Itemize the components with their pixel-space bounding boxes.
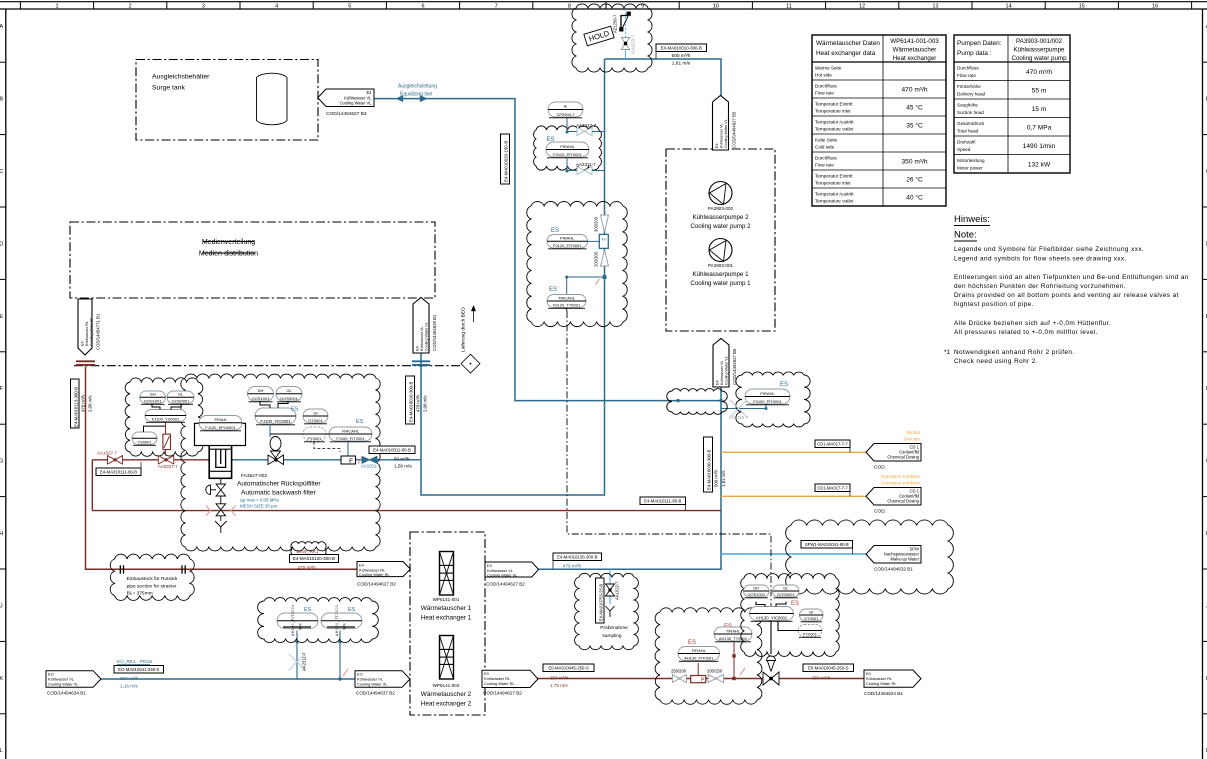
svg-text:C: C xyxy=(0,169,3,175)
svg-text:AA1027-7: AA1027-7 xyxy=(97,451,118,456)
battery limit line at media distribution xyxy=(74,365,461,367)
svg-text:Motorleistung: Motorleistung xyxy=(957,158,985,163)
svg-text:H: H xyxy=(0,531,3,537)
svg-text:Heat exchanger: Heat exchanger xyxy=(893,55,937,62)
svg-text:COD/14494627 B2: COD/14494627 B2 xyxy=(483,691,522,696)
svg-text:350 m³/h: 350 m³/h xyxy=(812,676,831,681)
revision cloud around backwash filter xyxy=(181,374,380,551)
svg-text:12: 12 xyxy=(859,4,865,10)
svg-text:E4-MA010111-80-B: E4-MA010111-80-B xyxy=(644,498,681,503)
svg-text:1490 1/min: 1490 1/min xyxy=(1023,143,1056,150)
flow element F box FJ100 xyxy=(347,442,349,457)
svg-text:Lieferung durch BEO: Lieferung durch BEO xyxy=(461,307,467,352)
pipe pump discharge header E4-MA010010-300-B xyxy=(605,59,722,96)
svg-text:55 m: 55 m xyxy=(1032,88,1047,95)
connector HX return right E0 RL xyxy=(482,670,538,687)
svg-text:KÜ_RK1 - PN16: KÜ_RK1 - PN16 xyxy=(117,658,152,665)
svg-text:ES: ES xyxy=(791,601,799,607)
svg-text:Heat exchanger data: Heat exchanger data xyxy=(816,50,876,57)
svg-text:ES: ES xyxy=(688,640,696,646)
svg-text:Cooling Water RL: Cooling Water RL xyxy=(866,681,897,686)
heat exchanger WP6141-002 symbol xyxy=(440,636,454,680)
instrument bubble GL GOS0001 filter xyxy=(276,387,302,402)
svg-text:GI: GI xyxy=(809,609,813,614)
svg-text:COD.: COD. xyxy=(874,465,886,471)
valve AA2311-7 xyxy=(566,158,568,171)
svg-text:500 m³/h: 500 m³/h xyxy=(714,469,719,487)
svg-text:AA2315-7: AA2315-7 xyxy=(729,415,749,420)
svg-text:1,81 m/s: 1,81 m/s xyxy=(672,60,691,66)
svg-text:PA3903-001/002: PA3903-001/002 xyxy=(1016,38,1063,45)
instrument bubble FJ100_YS0001 xyxy=(145,410,186,422)
svg-text:Alle Drücke beziehen sich auf: Alle Drücke beziehen sich auf +-0,0m Hüt… xyxy=(954,320,1111,327)
make-up connector SPW xyxy=(866,546,921,564)
svg-text:Cooling water pump: Cooling water pump xyxy=(1011,55,1067,62)
svg-text:E4-MA010010-300-B: E4-MA010010-300-B xyxy=(661,45,702,50)
svg-text:sampling: sampling xyxy=(602,633,622,639)
svg-text:E4-MA010030-300-B: E4-MA010030-300-B xyxy=(707,449,712,490)
svg-text:TIRCAHL: TIRCAHL xyxy=(558,295,576,300)
pipe stub to pressure instrument F0100 xyxy=(721,408,766,410)
svg-text:Corrosion Inhibitor: Corrosion Inhibitor xyxy=(881,481,921,487)
svg-text:Cooling Water VL: Cooling Water VL xyxy=(724,119,728,148)
svg-text:Förderhöhe: Förderhöhe xyxy=(957,84,981,89)
svg-text:4: 4 xyxy=(275,4,278,10)
svg-text:470 m³/h: 470 m³/h xyxy=(81,394,86,412)
instrument stub AH100 PIT xyxy=(296,631,298,680)
svg-text:COD/14494627 B5: COD/14494627 B5 xyxy=(732,111,737,148)
svg-text:Notwendigkeit anhand Rohr 2 pr: Notwendigkeit anhand Rohr 2 prüfen. xyxy=(954,349,1075,356)
svg-text:1,81 m/s: 1,81 m/s xyxy=(721,471,726,487)
svg-text:AA1021-7: AA1021-7 xyxy=(361,464,381,469)
svg-text:200/250: 200/250 xyxy=(707,669,723,674)
svg-text:Cooling Water VL: Cooling Water VL xyxy=(48,682,79,687)
instrument bubble GI GT0001 xyxy=(303,409,328,423)
filter drain valve 1 xyxy=(216,484,226,496)
svg-text:15: 15 xyxy=(1079,4,1085,10)
svg-text:GL: GL xyxy=(178,392,184,397)
sampling valve AA1022-7 xyxy=(606,584,615,596)
svg-text:Warme Seite: Warme Seite xyxy=(815,66,842,71)
pipe return from heat exchangers E0-MA010045-250-S xyxy=(538,678,864,680)
valve AA1021-7 xyxy=(362,456,377,463)
svg-text:GOS1001: GOS1001 xyxy=(144,398,163,403)
svg-text:E0-MA010045-250-S: E0-MA010045-250-S xyxy=(548,665,589,670)
svg-text:F0120_PIT0001: F0120_PIT0001 xyxy=(553,152,582,157)
svg-text:E4: E4 xyxy=(715,143,719,148)
svg-text:AA2311-7: AA2311-7 xyxy=(576,162,596,167)
interface diamond xyxy=(461,354,480,373)
svg-text:40 °C: 40 °C xyxy=(906,194,923,202)
svg-text:132 kW: 132 kW xyxy=(1028,162,1051,169)
heat exchanger WP6141-001 symbol xyxy=(440,552,454,596)
svg-text:GT0001: GT0001 xyxy=(804,616,819,621)
svg-text:Temperature inlet: Temperature inlet xyxy=(815,181,851,186)
svg-text:Suction head: Suction head xyxy=(957,110,984,115)
svg-text:470 m³/h: 470 m³/h xyxy=(298,565,317,570)
svg-text:AH100_TT0001: AH100_TT0001 xyxy=(335,605,339,636)
svg-text:Ausgleichsleitung: Ausgleichsleitung xyxy=(398,84,437,90)
svg-text:CP2900-7: CP2900-7 xyxy=(556,112,575,117)
HOLD marker xyxy=(584,26,614,46)
svg-text:Durchfluss: Durchfluss xyxy=(815,156,837,161)
pipe label E0-MA010045-250-S right xyxy=(803,664,854,672)
svg-text:350 m³/h: 350 m³/h xyxy=(901,159,927,166)
svg-text:Drains provided on all bottom: Drains provided on all bottom points and… xyxy=(954,292,1179,299)
svg-text:Probenahme: Probenahme xyxy=(600,625,628,631)
svg-text:1,56 m/s: 1,56 m/s xyxy=(394,464,412,469)
pipe chemical dosing corrosion inhibitor CD1 xyxy=(721,495,866,497)
svg-text:Hinweis:: Hinweis: xyxy=(954,214,990,225)
instrument bubble GI GT0001 right xyxy=(800,609,824,621)
dosing connector corrosion inhibitor xyxy=(866,488,921,506)
instrument bubble FJ100_YIC0001 xyxy=(255,408,296,424)
svg-text:Automatischer Rückspülfilter: Automatischer Rückspülfilter xyxy=(237,481,321,488)
pump PA3903-002 symbol xyxy=(709,182,732,205)
svg-text:All pressures related to +-0,0: All pressures related to +-0,0m millflor… xyxy=(954,329,1098,336)
instrument bubble FIRCAHL FJ100_FIT0001 xyxy=(329,427,372,441)
svg-text:Temperatur Austritt: Temperatur Austritt xyxy=(815,192,854,197)
svg-text:E: E xyxy=(0,314,3,320)
connector to surge tank COD/14494627 B3 xyxy=(318,89,374,107)
svg-text:14: 14 xyxy=(1006,4,1012,10)
connector media distribution supply COD B1 xyxy=(413,298,429,354)
instrument bubble PIRAHL F0120_FIT0001 xyxy=(547,235,588,249)
svg-text:den höchsten Punkten der Rohrl: den höchsten Punkten der Rohrleitung vor… xyxy=(954,283,1126,290)
svg-text:Kühlwasserpumpe: Kühlwasserpumpe xyxy=(1014,47,1065,54)
valve AA1027-7 xyxy=(108,456,123,465)
revision cloud AH100 instruments xyxy=(258,598,379,643)
svg-text:Cooling Water RL: Cooling Water RL xyxy=(359,572,390,577)
svg-text:5: 5 xyxy=(348,4,351,10)
svg-text:TIRAHL: TIRAHL xyxy=(726,628,741,633)
svg-text:AH130_FIT0001: AH130_FIT0001 xyxy=(684,655,714,660)
revision cloud sampling xyxy=(575,573,639,649)
svg-text:L: L xyxy=(0,748,3,754)
svg-text:Medienverteilung: Medienverteilung xyxy=(202,239,255,246)
svg-text:F0120_TT0001: F0120_TT0001 xyxy=(553,302,581,307)
cooling water pump unit box xyxy=(666,149,775,331)
svg-text:D: D xyxy=(0,241,3,247)
svg-text:Drehzahl: Drehzahl xyxy=(957,140,975,145)
svg-text:Durchfluss: Durchfluss xyxy=(957,66,979,71)
svg-text:EO-MA010041-250-S: EO-MA010041-250-S xyxy=(118,667,159,672)
svg-text:Note:: Note: xyxy=(954,230,977,241)
svg-text:Wärmetauscher Daten: Wärmetauscher Daten xyxy=(816,40,880,47)
svg-text:GOS0001: GOS0001 xyxy=(172,398,191,403)
connector media distribution return COD B1 xyxy=(78,299,92,355)
svg-text:96%: 96% xyxy=(343,623,347,630)
svg-text:G: G xyxy=(0,459,3,465)
svg-text:2,06 m/s: 2,06 m/s xyxy=(88,396,93,412)
svg-text:E4: E4 xyxy=(716,380,720,385)
svg-text:Pump data :: Pump data : xyxy=(957,50,992,57)
svg-text:Gesamtdruck: Gesamtdruck xyxy=(957,121,985,126)
svg-text:GT0001: GT0001 xyxy=(308,418,323,423)
svg-text:COD/14494637 B2: COD/14494637 B2 xyxy=(356,691,395,696)
deleted valve AA2311-7 bottom xyxy=(289,654,306,671)
svg-text:Legend and symbols for flow sh: Legend and symbols for flow sheets see d… xyxy=(954,256,1127,263)
vent valve AU1523-7 xyxy=(621,38,630,50)
rotated pipe label E4-MA010113-300-B xyxy=(71,379,80,428)
svg-text:Entleerungen sind an allen Tie: Entleerungen sind an allen Tiefpunkten u… xyxy=(954,274,1189,281)
svg-text:Chemical Dosing: Chemical Dosing xyxy=(887,499,919,504)
svg-text:PA3903-002: PA3903-002 xyxy=(708,206,734,211)
instrument bubble TIRCAHL F0120_TT0001 xyxy=(547,295,586,308)
slash mark bottom junction xyxy=(343,669,348,676)
svg-text:FJ100_EPU0001: FJ100_EPU0001 xyxy=(205,425,236,430)
slash mark riser xyxy=(596,279,600,285)
svg-text:FA3527-002: FA3527-002 xyxy=(241,473,267,479)
svg-text:AA2311-7: AA2311-7 xyxy=(302,652,307,671)
surge tank battery-limit box xyxy=(136,60,318,141)
svg-text:Biocide: Biocide xyxy=(904,437,920,443)
interface tick marks return line xyxy=(76,360,95,362)
svg-text:AH130_YIC0001: AH130_YIC0001 xyxy=(756,615,788,620)
svg-text:10: 10 xyxy=(713,4,719,10)
reducer 200/250 xyxy=(708,675,716,683)
svg-text:50 m³/h: 50 m³/h xyxy=(394,457,410,462)
svg-text:E4-MA010113-300-B: E4-MA010113-300-B xyxy=(74,387,79,427)
sampling funnel xyxy=(606,606,615,611)
svg-text:B: B xyxy=(0,97,3,103)
svg-text:Total head: Total head xyxy=(957,129,979,134)
flow arrows on equalizing line xyxy=(396,95,403,101)
svg-text:300/200: 300/200 xyxy=(594,216,599,232)
svg-text:11: 11 xyxy=(786,4,792,10)
revision cloud make-up water xyxy=(786,520,954,594)
svg-text:E4-MA010130-300-B: E4-MA010130-300-B xyxy=(557,554,598,559)
svg-text:Biozid: Biozid xyxy=(907,430,920,436)
svg-text:COD/14454628 B1: COD/14454628 B1 xyxy=(432,314,437,351)
svg-text:PIRAHL: PIRAHL xyxy=(560,236,575,241)
strainer spool flanges xyxy=(119,565,121,573)
svg-text:FIRAHL: FIRAHL xyxy=(692,648,707,653)
svg-text:Temperature inlet: Temperature inlet xyxy=(815,109,851,114)
svg-text:Temperature outlet: Temperature outlet xyxy=(815,199,854,204)
connector HX supply right E4 VL xyxy=(485,562,539,577)
pipe label E4-MA010120-300-B xyxy=(290,555,339,563)
svg-text:Wärmetauscher 1: Wärmetauscher 1 xyxy=(421,605,472,612)
svg-text:F: F xyxy=(349,459,353,465)
svg-text:WP6141-001: WP6141-001 xyxy=(433,597,460,602)
pump data table xyxy=(954,35,1070,173)
svg-text:ES: ES xyxy=(348,607,356,613)
reducer 200/300 xyxy=(601,250,609,266)
svg-text:AU1523-7: AU1523-7 xyxy=(631,34,636,54)
svg-text:350 m³/h: 350 m³/h xyxy=(120,676,139,681)
instrument bubble GH GOS1001 xyxy=(140,391,166,404)
svg-text:ES: ES xyxy=(291,407,299,413)
svg-text:26 °C: 26 °C xyxy=(906,176,923,184)
svg-text:Speed: Speed xyxy=(957,147,971,152)
instrument bubble PIRAHL F0100_PIT0001 xyxy=(745,389,790,404)
instrument bubble AH100_PIT0001 rotated xyxy=(277,613,318,629)
connector return E0 RL COD/14494624 B1 xyxy=(864,670,921,687)
3-way control valve FJ100 xyxy=(270,437,281,451)
svg-text:FIRCAHL: FIRCAHL xyxy=(342,428,360,433)
solenoid actuator AA0327 xyxy=(165,422,167,434)
pipe pump suction down-leg to heat exchangers E4-MA010130-300-B xyxy=(539,387,721,569)
svg-text:*1: *1 xyxy=(944,349,950,356)
vent stub xyxy=(625,50,627,59)
svg-text:AZ1256-7: AZ1256-7 xyxy=(613,14,618,33)
instrument bubble GL GOS0001 right xyxy=(773,585,800,597)
instrument bubble AH100_TT0001 rotated xyxy=(321,613,362,629)
svg-text:K: K xyxy=(0,676,3,682)
orifice P box xyxy=(691,676,706,683)
svg-text:0,7 MPa: 0,7 MPa xyxy=(1027,125,1052,132)
svg-text:470 m³/h: 470 m³/h xyxy=(901,87,927,94)
svg-text:470 m³/h: 470 m³/h xyxy=(416,394,421,412)
instrument bubble TIRAHL AH130_TT0001 xyxy=(714,627,752,641)
svg-text:E4-MA010755-25-B: E4-MA010755-25-B xyxy=(599,584,604,621)
svg-text:DH: DH xyxy=(753,585,759,590)
svg-text:15 m: 15 m xyxy=(1032,106,1047,113)
control valve with actuator AH130 xyxy=(767,656,776,660)
slash mark xyxy=(358,457,362,465)
svg-text:COD/14494624 B1: COD/14494624 B1 xyxy=(864,691,903,696)
svg-text:16: 16 xyxy=(1152,4,1158,10)
svg-text:CD1-MA017-7-7: CD1-MA017-7-7 xyxy=(817,485,848,490)
svg-text:Equalizing line: Equalizing line xyxy=(400,91,432,97)
pipe chemical dosing biocide CD1 xyxy=(721,451,866,453)
revision cloud flow orifice F0120 xyxy=(527,201,627,326)
svg-text:ES: ES xyxy=(549,287,557,293)
svg-text:Durchfluss: Durchfluss xyxy=(815,84,837,89)
instrument bubble DH GOS1001 right xyxy=(744,585,770,597)
valve AA2317-7 xyxy=(566,118,568,132)
svg-text:GL: GL xyxy=(783,585,789,590)
svg-text:ES: ES xyxy=(780,382,788,388)
instrument bubble FIRAHL AH130_FIT0001 xyxy=(678,647,720,661)
revision cloud strainer spool xyxy=(110,554,194,600)
instrument stub AH100 TT xyxy=(339,631,341,680)
svg-text:WP6141-002: WP6141-002 xyxy=(433,683,460,688)
svg-text:Fo: Fo xyxy=(602,237,607,242)
pipe label E4-MA010011-80-B xyxy=(369,446,415,454)
revision cloud FIRAHL AH130 xyxy=(655,608,762,705)
svg-text:hightest position of pipe.: hightest position of pipe. xyxy=(954,301,1034,308)
instrument bubble PIRAHL F0120_PIT0001 xyxy=(546,142,589,157)
svg-text:Legende und Symbole für Fließb: Legende und Symbole für Fließbilder sieh… xyxy=(954,246,1144,253)
deleted valve AA2315-7 xyxy=(730,400,747,417)
svg-text:Kühlwasser VL: Kühlwasser VL xyxy=(720,123,724,148)
sampling stub xyxy=(609,569,611,604)
connector strainer to HX E4 RL xyxy=(357,562,410,577)
pipe cooling water supply bottom EO-MA010041-250-S xyxy=(101,678,410,680)
pipe filter branch vertical xyxy=(91,460,93,511)
svg-text:ES: ES xyxy=(356,419,364,425)
svg-text:PI: PI xyxy=(564,104,568,109)
svg-text:Chemical Dosing: Chemical Dosing xyxy=(887,455,919,460)
svg-text:3: 3 xyxy=(202,4,205,10)
svg-text:FJ100_FIT0001: FJ100_FIT0001 xyxy=(336,436,365,441)
connector pump suction COD/14494627 B5 xyxy=(713,339,729,388)
instrument bubble FY0001 right xyxy=(798,625,822,637)
revision cloud HOLD vent xyxy=(572,4,652,72)
svg-text:AA2317-7: AA2317-7 xyxy=(576,123,597,128)
svg-text:Flow rate: Flow rate xyxy=(815,163,834,168)
junction pump suction / equalizing xyxy=(719,399,722,402)
svg-text:Cooling Water VL: Cooling Water VL xyxy=(357,682,388,687)
svg-text:GL: GL xyxy=(286,388,292,393)
svg-text:500 m³/h: 500 m³/h xyxy=(672,53,691,59)
svg-text:ES: ES xyxy=(304,607,312,613)
svg-text:F0120_FIT0001: F0120_FIT0001 xyxy=(553,243,582,248)
svg-text:Flow rate: Flow rate xyxy=(815,91,834,96)
svg-text:pipe section for strainer: pipe section for strainer xyxy=(127,583,177,589)
svg-text:AA1022-7: AA1022-7 xyxy=(615,581,620,600)
svg-text:Cooling Water VL: Cooling Water VL xyxy=(725,356,729,385)
svg-text:Einbaustück für Rutsieb: Einbaustück für Rutsieb xyxy=(127,576,178,582)
svg-text:Kalte Seite: Kalte Seite xyxy=(815,138,838,143)
pipe filter inlet E4-MA010111-80-B xyxy=(92,459,209,461)
svg-text:7: 7 xyxy=(495,4,498,10)
heat exchanger unit box xyxy=(410,532,485,715)
svg-text:Ausgleichsbehälter: Ausgleichsbehälter xyxy=(152,74,210,81)
svg-text:MESH SIZE 30 μm: MESH SIZE 30 μm xyxy=(240,504,278,509)
svg-text:E4-MA010120-300-B: E4-MA010120-300-B xyxy=(293,556,335,561)
pipe equalizing line E4 (surge tank to pump suction) xyxy=(374,99,721,401)
svg-text:GOS1001: GOS1001 xyxy=(747,592,766,597)
svg-text:E4-MA010011-80-B: E4-MA010011-80-B xyxy=(373,447,411,452)
instrument bubble YS0001 xyxy=(132,432,157,445)
svg-text:Temperatur Austritt: Temperatur Austritt xyxy=(815,120,854,125)
svg-text:AA0327-7: AA0327-7 xyxy=(158,464,178,469)
svg-text:COD/14494632 B1: COD/14494632 B1 xyxy=(874,567,913,572)
flow element F0120 box xyxy=(599,234,608,248)
revision cloud PIRAHL PIT0001 xyxy=(534,126,602,170)
svg-text:35 °C: 35 °C xyxy=(906,122,923,130)
svg-text:2: 2 xyxy=(129,4,132,10)
revision cloud small at suction junction xyxy=(667,389,728,415)
svg-text:E4-MA010010-300-B: E4-MA010010-300-B xyxy=(409,381,414,422)
svg-text:J: J xyxy=(0,603,3,609)
svg-text:13: 13 xyxy=(932,4,938,10)
svg-text:FJ100_YS0001: FJ100_YS0001 xyxy=(152,416,180,421)
svg-text:Cold side: Cold side xyxy=(815,145,835,150)
instrument bubble DH GOS1001 xyxy=(248,387,274,402)
svg-text:GOS0001: GOS0001 xyxy=(777,592,796,597)
air release assembly AZ1256-7 xyxy=(625,9,627,50)
svg-text:Kühlwasserpumpe 1: Kühlwasserpumpe 1 xyxy=(692,271,749,278)
svg-text:Cooling water pump 2: Cooling water pump 2 xyxy=(690,223,751,230)
svg-text:Cooling Water RL: Cooling Water RL xyxy=(90,317,94,346)
svg-text:Hot side: Hot side xyxy=(815,73,832,78)
revision cloud PIRAHL F0100 xyxy=(736,372,810,427)
instrument bubble GL GOS0001 xyxy=(167,391,194,404)
dosing connector biocide xyxy=(866,444,921,462)
valve AA0327-7 xyxy=(158,456,174,465)
svg-text:WP6141-001-003: WP6141-001-003 xyxy=(890,38,939,45)
svg-text:E4: E4 xyxy=(81,341,85,346)
pipe return main E4 from media distribution xyxy=(86,367,358,570)
pipe label backwash E4-MA010111-80-B xyxy=(640,497,686,505)
svg-text:Cooling Water RL: Cooling Water RL xyxy=(484,681,515,686)
svg-text:A: A xyxy=(0,24,3,30)
svg-text:FY0001: FY0001 xyxy=(307,436,322,441)
svg-text:Korrosion Inhibitor: Korrosion Inhibitor xyxy=(881,474,920,480)
svg-text:1,75 m/s: 1,75 m/s xyxy=(550,683,568,688)
svg-text:8: 8 xyxy=(568,4,571,10)
svg-text:COD/14494627 B2: COD/14494627 B2 xyxy=(486,582,525,587)
pipe main supply riser E4-MA010010-300-B xyxy=(421,59,605,495)
svg-text:250/200: 250/200 xyxy=(671,669,687,674)
pipe make-up water SPW1-MA010041-80-B xyxy=(721,553,866,555)
svg-text:COD/14494634 B1: COD/14494634 B1 xyxy=(47,691,86,696)
svg-text:Make-up Water: Make-up Water xyxy=(891,557,920,562)
